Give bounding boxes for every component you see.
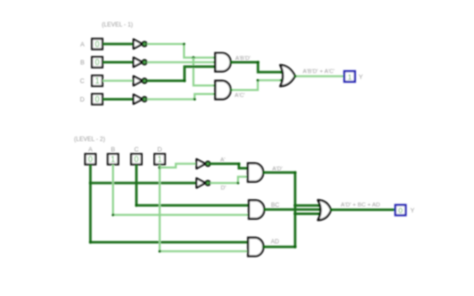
svg-text:A: A [88,147,93,154]
wire net C to AND G5 input 1 [136,164,249,205]
node dot G5 output [263,208,266,211]
node dot B corner [112,214,115,217]
wire net D vertical bus to AND G6 input 2 [160,164,249,251]
and-gate G1 (3-input) [215,53,230,71]
svg-text:B: B [111,147,115,154]
wire D to U4 [102,98,133,101]
junction D to inverter U5 [158,166,161,169]
junction bus to OR G7 input 3 [294,212,297,215]
node dot OR2 pin3 [317,212,320,215]
wire G3 output to OUT1 [295,75,344,77]
inverter U6 [196,178,211,187]
svg-text:1: 1 [157,155,162,164]
input D2 [155,154,165,164]
inverter U5 [196,159,211,168]
svg-text:A'D' + BC + AD: A'D' + BC + AD [341,203,380,209]
svg-text:1: 1 [95,77,100,86]
node dot D G6 pin [247,250,250,253]
input C1 [92,76,102,86]
svg-text:1: 1 [348,72,352,81]
node dot G6 out corner [294,245,297,248]
and-gate G2 (2-input) [215,81,230,99]
input A1 [92,39,102,49]
node dot OR2 pin1 [317,204,320,207]
node dot A corner [89,241,92,244]
svg-text:0: 0 [398,206,402,215]
node dot OUT2 pin [394,208,397,211]
svg-text:0: 0 [88,155,93,164]
svg-text:Y: Y [410,207,415,214]
node dot G1 out corner [257,61,260,64]
wire B to U2 [102,61,133,64]
wire net B' from U2 to AND G1 input 2 [147,61,216,63]
node dot U5 corner [238,162,241,165]
input B1 [92,57,102,67]
inverter U1 [134,39,147,48]
wire net C' from U3 to AND G1 input 3 [147,67,216,81]
junction A to inverter U6 [89,182,92,185]
wire bus to OR G7 input 1 [295,204,319,207]
wire bus to OR G7 input 3 [295,213,319,216]
node dot OR pin2 [280,79,283,82]
node dot D corner [158,250,161,253]
node dot G1 output [229,61,232,64]
and-gate G4 [248,163,263,181]
wire net A to inverter U6 [90,182,196,185]
node dot corner C' [183,79,186,82]
svg-text:BC: BC [271,203,280,209]
svg-text:B: B [80,60,84,67]
svg-text:C: C [80,78,85,85]
svg-text:A'C': A'C' [235,93,245,99]
svg-text:A': A' [220,157,225,163]
node dot corner A' [183,43,186,46]
wire U6 output to AND G4 input 2 [210,177,248,183]
node dot G7 output [330,208,333,211]
svg-text:Y: Y [359,74,364,81]
output OUT2 [395,205,405,215]
svg-text:0: 0 [95,95,100,104]
wire C to U3 [102,80,133,82]
svg-text:D: D [80,96,85,103]
node dot G2 out corner [257,79,260,82]
node dot G4 pin2 [247,175,250,178]
svg-text:(LEVEL - 2): (LEVEL - 2) [74,137,105,143]
svg-text:0: 0 [95,40,100,49]
wire net A' from U1 to AND G1 input 1 [147,44,216,58]
wire U5 output to AND G4 input 1 [210,164,248,169]
node dot U6 corner [237,182,240,185]
node dot G6 output [262,246,265,249]
wire G4 output down the shared bus [263,173,295,248]
and-gate G5 [249,200,264,218]
input A2 [85,154,95,164]
or-gate G7 [318,200,331,220]
svg-text:A'B'D' + A'C': A'B'D' + A'C' [303,69,335,75]
output OUT1 [344,71,355,82]
node dot C G5 pin [247,204,250,207]
node dot G4 output [262,171,265,174]
inverter U4 [134,95,147,104]
inverter U3 [134,76,147,85]
svg-text:(LEVEL - 1): (LEVEL - 1) [102,22,133,28]
node dot D-U4 input [133,98,136,101]
wire net D' from U4 to AND G2 input 2 [147,94,216,99]
wire G5 output to OR G7 input 2 [264,208,319,211]
node dot B' gate1 pin [214,61,217,64]
svg-text:1: 1 [111,155,116,164]
node dot A' gate1 pin [214,56,217,59]
node dot OR pin1 [280,71,283,74]
wire G1 output to OR G3 input 1 [231,62,282,72]
node dot A-U1 input [133,43,136,46]
node dot C' gate1 pin [213,65,216,68]
wire G6 output to shared bus [263,246,295,249]
node dot B-U2 input [133,61,136,64]
and-gate G6 [248,238,263,256]
node dot corner D' [193,98,196,101]
node dot G2 output [229,89,232,92]
junction bus to OR G7 input 1 [294,204,297,207]
node dot G4 pin1 [247,167,250,170]
svg-text:D': D' [221,185,226,191]
svg-text:C: C [134,147,139,154]
wire net D to inverter U5 [160,164,197,168]
svg-text:0: 0 [134,155,139,164]
or-gate G3 [280,65,295,86]
node dot OR2 pin2 [318,208,321,211]
wire G7 output to OUT2 [331,209,396,212]
svg-text:D: D [157,147,162,154]
wire net A vertical bus [90,164,250,242]
node dot G4 out corner [294,171,297,174]
node dot D' gate2 pin [214,93,217,96]
svg-text:A: A [80,41,85,48]
input C2 [131,154,141,164]
node dot OUT1 pin [343,75,346,78]
wire G2 output to OR G3 input 2 [231,80,282,90]
node dot A' gate2 pin [214,84,217,87]
svg-text:AD: AD [271,239,280,245]
node dot B G5 pin [248,214,251,217]
node dot C-U3 input [133,79,136,82]
node dot A G6 pin [248,241,251,244]
wire net A' branch to AND G2 input 1 [193,58,215,86]
node dot C corner [135,204,138,207]
wire A to U1 [102,43,133,46]
junction A' branch [192,56,195,59]
input B2 [108,154,118,164]
inverter U2 [134,58,147,67]
input D1 [92,94,102,104]
wire net B to AND G5 input 2 [113,164,249,215]
node dot G3 output [294,75,297,78]
svg-text:0: 0 [95,58,100,67]
